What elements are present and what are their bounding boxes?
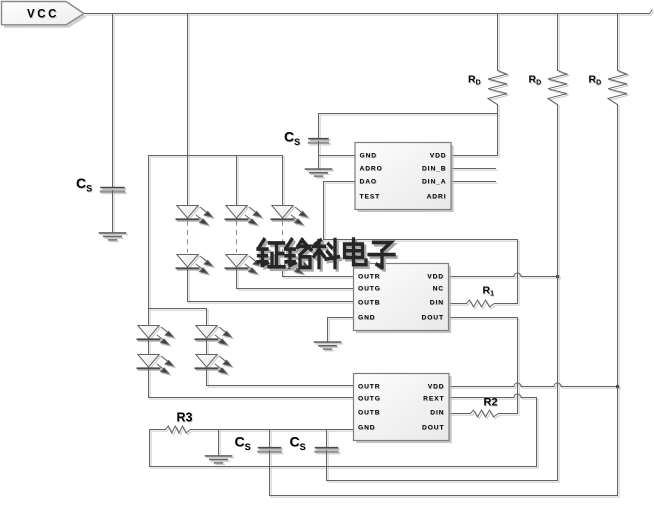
chip U2 body	[354, 264, 452, 334]
svg-text:ADRI: ADRI	[427, 193, 447, 200]
chip U1 body	[355, 143, 454, 213]
svg-text:R3: R3	[177, 411, 193, 425]
svg-text:DIN: DIN	[430, 409, 444, 416]
svg-text:GND: GND	[360, 152, 378, 159]
watermark 钲铭科电子	[258, 239, 396, 270]
svg-text:OUTR: OUTR	[358, 273, 380, 280]
svg-text:DAO: DAO	[360, 178, 378, 185]
svg-text:DOUT: DOUT	[422, 424, 444, 431]
svg-text:DIN_B: DIN_B	[422, 165, 447, 172]
wire dashed string continuation x=187	[187, 221, 189, 253]
svg-text:OUTR: OUTR	[358, 383, 380, 390]
power flag VCC	[2, 2, 87, 28]
svg-text:R2: R2	[484, 397, 498, 409]
svg-text:VDD: VDD	[427, 273, 444, 280]
svg-text:OUTG: OUTG	[358, 395, 381, 402]
svg-text:TEST: TEST	[360, 193, 381, 200]
wire dashed string continuation x=282	[282, 221, 284, 253]
svg-text:GND: GND	[358, 314, 376, 321]
svg-text:ADRO: ADRO	[360, 165, 383, 172]
wire dashed string continuation x=236	[236, 221, 238, 253]
svg-text:GND: GND	[358, 424, 376, 431]
svg-text:NC: NC	[433, 285, 444, 292]
svg-text:OUTB: OUTB	[358, 299, 380, 306]
svg-text:VDD: VDD	[428, 383, 445, 390]
svg-text:OUTG: OUTG	[358, 285, 381, 292]
chip U3 body	[354, 374, 452, 444]
svg-text:DIN: DIN	[430, 299, 444, 306]
svg-text:VCC: VCC	[27, 9, 59, 21]
svg-text:DIN_A: DIN_A	[422, 178, 447, 185]
svg-text:DOUT: DOUT	[422, 314, 444, 321]
svg-text:REXT: REXT	[423, 395, 444, 402]
svg-text:VDD: VDD	[430, 152, 447, 159]
svg-text:OUTB: OUTB	[358, 409, 380, 416]
